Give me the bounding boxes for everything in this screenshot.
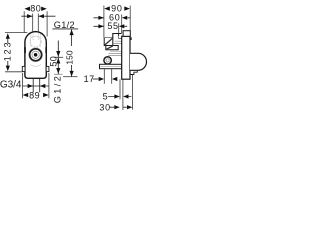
dimension 50 down-arrow — [56, 68, 60, 74]
front view: cartridge halo ring — [28, 48, 42, 62]
front view: cartridge outer circle — [30, 49, 42, 61]
dimension 123 bottom extension line — [5, 71, 22, 73]
dimension 123 bottom arrow — [6, 66, 10, 72]
side view: body top-left block — [104, 34, 122, 38]
svg-text:50: 50 — [48, 56, 58, 67]
label G3/4 leader line — [23, 85, 49, 87]
dimension 150 top arrow — [70, 30, 74, 36]
dimension 55 — [94, 21, 128, 31]
front view: bottom port stub lines — [33, 79, 40, 93]
svg-text:G3/4: G3/4 — [0, 80, 22, 91]
side view: neck thread lines — [108, 41, 121, 55]
side view: lower elbow circle — [104, 57, 111, 64]
dimension 150 line — [71, 29, 73, 76]
extension lines below plate — [120, 79, 123, 110]
svg-text:55: 55 — [107, 21, 118, 31]
svg-text:150: 150 — [65, 50, 75, 65]
side view: back extension line — [103, 6, 105, 38]
svg-text:80: 80 — [30, 4, 41, 14]
dimension 5 — [103, 92, 132, 102]
front view: faint arc below cartridge — [30, 65, 41, 67]
side view: right nub — [130, 37, 132, 40]
side view: body back face — [104, 38, 113, 46]
side view: elbow inner arc — [106, 59, 109, 62]
dimension 150 bottom arrow — [70, 71, 74, 77]
dimension 123 top arrow — [6, 33, 10, 39]
dimension 123 line — [7, 39, 9, 67]
front view: cartridge centre dot — [34, 53, 38, 57]
svg-text:89: 89 — [29, 90, 40, 100]
dimension 30 — [99, 102, 132, 112]
svg-text:30: 30 — [99, 102, 110, 112]
side view: bottom bar — [100, 64, 122, 68]
dimension 50 upper down-arrow — [56, 51, 60, 57]
svg-text:123: 123 — [3, 41, 13, 62]
dimension 80 — [24, 4, 46, 14]
front view: top port hidden lines — [33, 34, 38, 41]
side view: middle band hatch — [106, 46, 113, 49]
side view: step notch — [118, 34, 121, 38]
dimension 60 — [94, 13, 131, 23]
svg-text:G1/2: G1/2 — [52, 74, 62, 104]
17 extension lines below bar — [104, 69, 111, 84]
dimension 150 bottom extension line — [63, 76, 78, 78]
label G1/2 top underline — [52, 28, 78, 30]
side view: bottom bar mid line — [100, 66, 121, 68]
side view: cap block on plate — [123, 31, 130, 37]
front view: right screw tab — [45, 47, 47, 53]
side view: hatch in top-left block — [105, 38, 113, 45]
dimension 89 extension lines — [22, 73, 49, 98]
side view: middle band — [106, 46, 118, 50]
G3/4 right-arrow — [28, 84, 33, 88]
dimension 89 — [23, 90, 49, 100]
dimension 50 line — [57, 41, 59, 75]
dimension 17 — [84, 74, 118, 84]
svg-text:5: 5 — [103, 92, 108, 102]
extension line from dome step — [132, 75, 134, 110]
side view: dome — [130, 53, 147, 70]
top port dimension arrows with leaders — [21, 14, 55, 18]
front view: interior faint verticals — [31, 34, 41, 47]
dimension 55 extension line right — [118, 23, 120, 36]
dimension 50 bottom tick — [54, 73, 63, 75]
front view: cartridge inner ring — [32, 51, 39, 58]
side view: front extension line — [129, 6, 131, 31]
dimension 50 mid tick — [54, 56, 63, 58]
side view: step below dome — [130, 70, 137, 74]
dimension 80 extension lines — [24, 11, 47, 36]
front view: hidden dashed circle — [30, 36, 41, 47]
top port extension lines — [33, 14, 39, 32]
dimension 60 extension line right — [121, 14, 123, 33]
front view: interior faint horizontal — [31, 35, 40, 37]
front view: valve body outline — [25, 32, 46, 79]
front view: left side port — [22, 66, 25, 71]
dimension 50 up-arrow — [56, 58, 60, 64]
G3/4 left-arrow — [40, 84, 45, 88]
front view: left screw tab — [24, 47, 26, 53]
front view: right side port — [46, 66, 49, 71]
dimension 123 top extension line — [5, 32, 27, 34]
side view: wall plate — [122, 36, 130, 79]
dimension 90 — [104, 4, 130, 14]
